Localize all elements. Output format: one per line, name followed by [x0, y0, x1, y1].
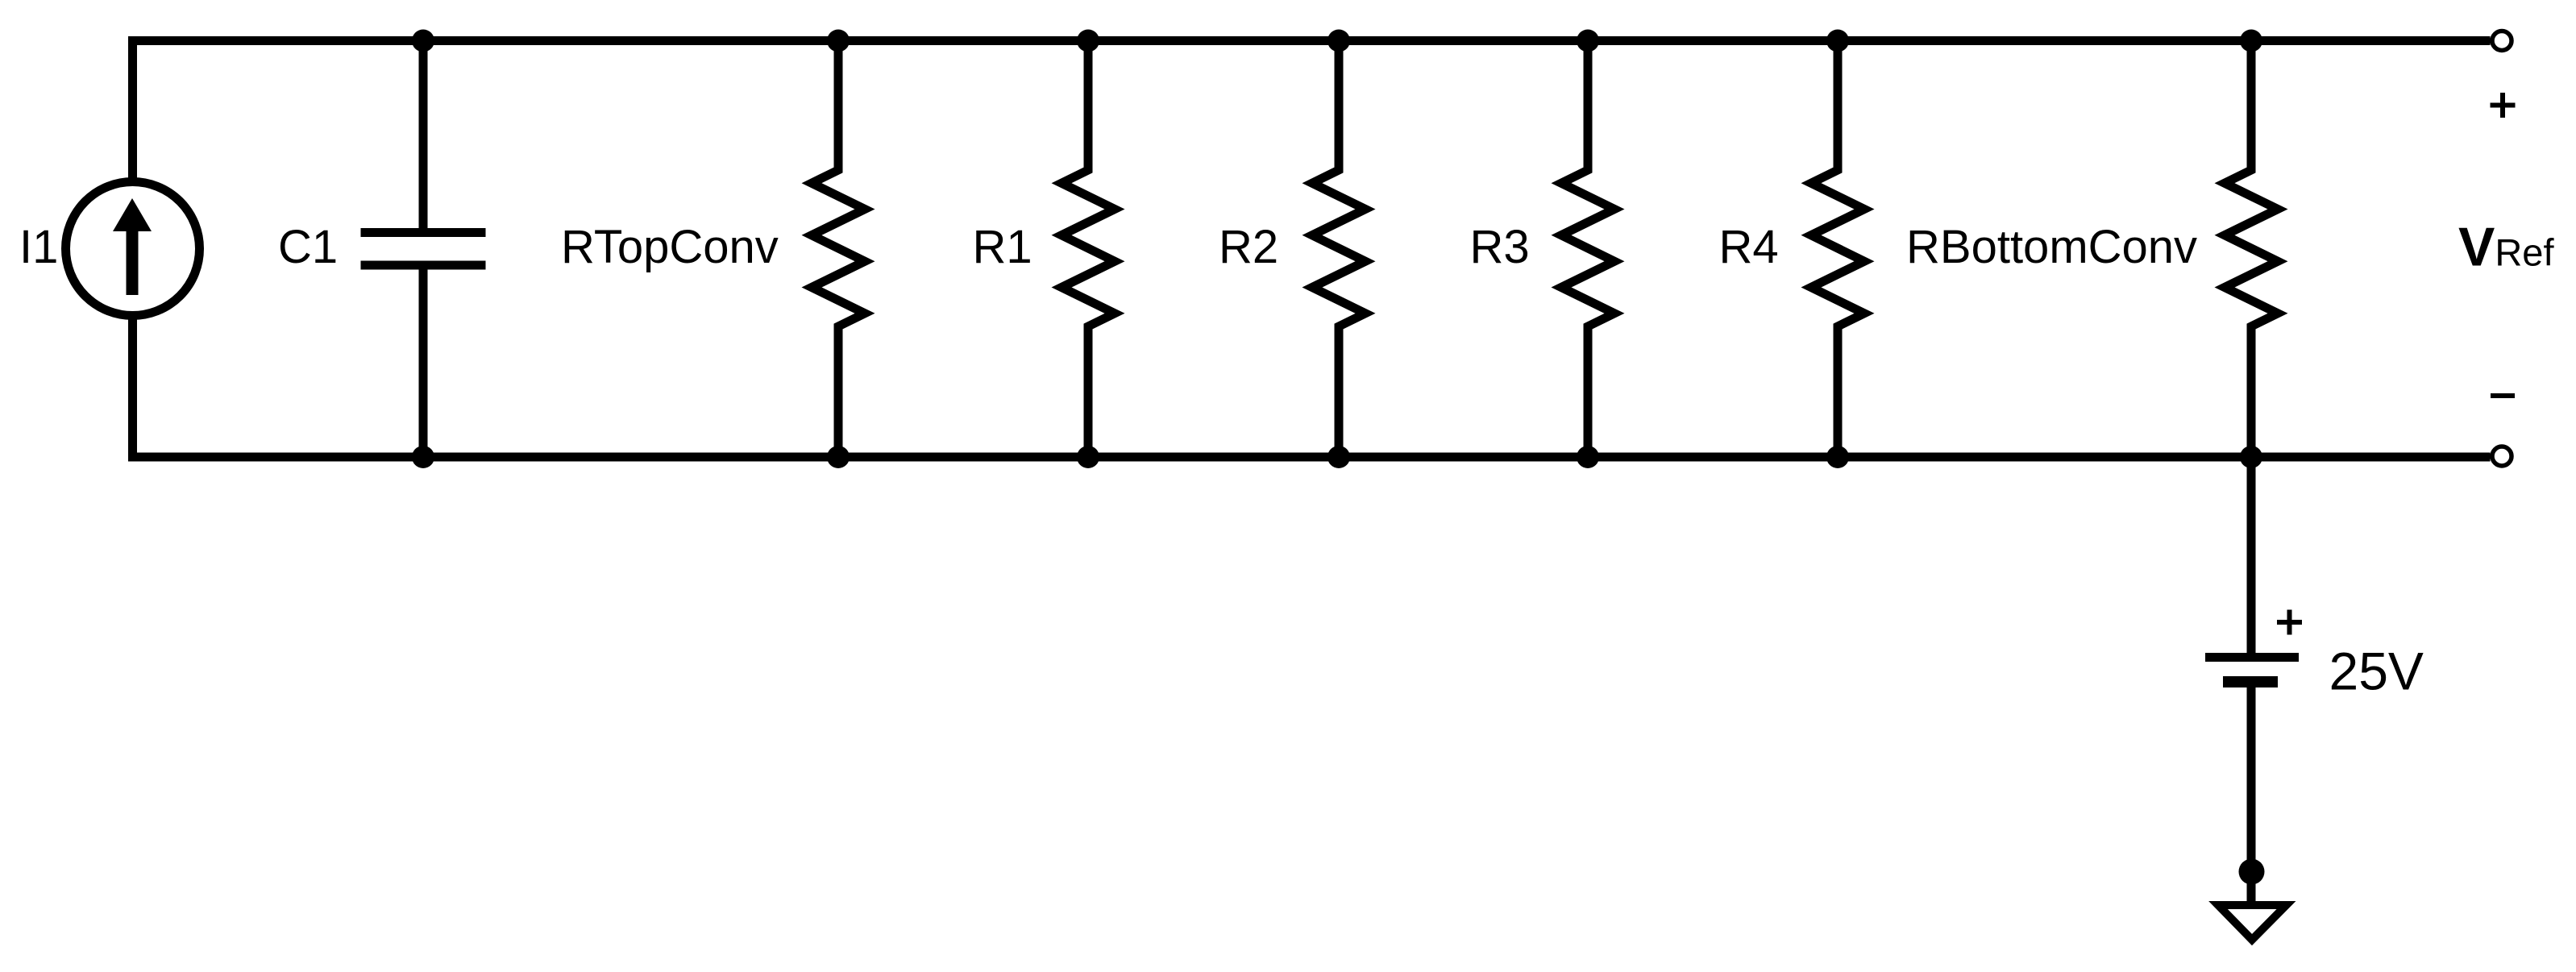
plus sign battery	[2277, 610, 2302, 635]
resistor R3	[1561, 41, 1614, 458]
resistor R1	[1062, 41, 1115, 458]
node dot C1 bottom	[412, 446, 434, 468]
node dot ground	[2239, 859, 2265, 885]
wire battery to ground	[2247, 687, 2256, 901]
svg-text:R3: R3	[1470, 221, 1530, 273]
node dot RTopConv top	[827, 30, 850, 52]
node dot R2 bottom	[1327, 446, 1350, 468]
resistor R2	[1312, 41, 1365, 458]
node dot R1 top	[1077, 30, 1099, 52]
node dot R1 bottom	[1077, 446, 1099, 468]
battery V1 25V short plate	[2223, 676, 2278, 687]
wire C1 top lead	[419, 41, 428, 229]
node dot C1 top	[412, 30, 434, 52]
node dot RBottomConv bottom	[2240, 446, 2262, 468]
terminal VRef plus	[2492, 31, 2512, 51]
svg-text:RTopConv: RTopConv	[561, 221, 779, 273]
svg-text:I1: I1	[19, 221, 58, 273]
minus sign VRef	[2491, 393, 2515, 398]
capacitor C1	[361, 233, 486, 266]
node dot RBottomConv top	[2240, 30, 2262, 52]
node dot R4 bottom	[1826, 446, 1849, 468]
wire top bus	[128, 36, 2491, 45]
wire battery top lead	[2247, 457, 2256, 653]
node dot R4 top	[1826, 30, 1849, 52]
wire bottom bus	[128, 453, 2491, 462]
node dot R2 top	[1327, 30, 1350, 52]
current source I1	[66, 182, 200, 316]
svg-text:25V: 25V	[2329, 642, 2424, 701]
wire left branch	[128, 36, 137, 462]
node dot RTopConv bottom	[827, 446, 850, 468]
resistor RBottomConv	[2225, 41, 2278, 458]
battery V1 25V long plate	[2205, 653, 2299, 662]
svg-text:R4: R4	[1719, 221, 1779, 273]
plus sign VRef	[2491, 93, 2516, 118]
svg-text:C1: C1	[278, 221, 338, 273]
svg-text:R2: R2	[1219, 221, 1278, 273]
node dot R3 bottom	[1577, 446, 1599, 468]
terminal VRef minus	[2492, 447, 2512, 466]
svg-text:RBottomConv: RBottomConv	[1906, 221, 2197, 273]
wire C1 bottom lead	[419, 270, 428, 458]
ground	[2218, 905, 2287, 940]
resistor RTopConv	[812, 41, 865, 458]
resistor R4	[1811, 41, 1864, 458]
node dot R3 top	[1577, 30, 1599, 52]
svg-text:VRef: VRef	[2458, 217, 2554, 278]
svg-text:R1: R1	[973, 221, 1032, 273]
